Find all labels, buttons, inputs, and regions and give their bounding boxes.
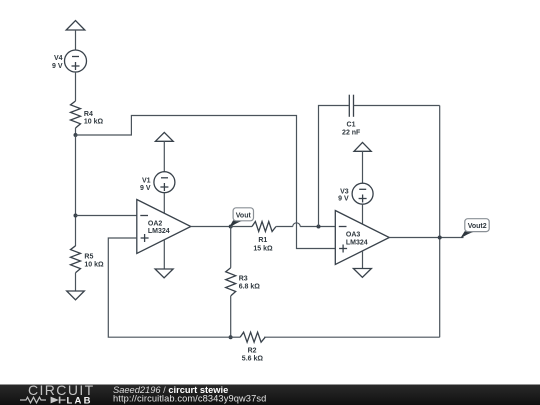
svg-text:http://circuitlab.com/c8343y9q: http://circuitlab.com/c8343y9qw37sd <box>113 394 266 404</box>
resistor R1 <box>231 222 276 253</box>
voltage source V4 <box>52 50 87 72</box>
svg-text:OA3: OA3 <box>346 232 361 239</box>
svg-text:LAB: LAB <box>67 395 93 405</box>
svg-text:15 kΩ: 15 kΩ <box>253 246 273 253</box>
wire left column down <box>75 135 77 246</box>
wire OA3 bottom power <box>362 251 364 269</box>
svg-text:Vout2: Vout2 <box>468 223 487 230</box>
op-amp OA2 LM324 <box>137 200 191 254</box>
resistor R4 <box>71 101 104 128</box>
wire right vertical down <box>439 106 441 338</box>
svg-text:V4: V4 <box>54 55 63 62</box>
wire to OA2 - input <box>76 215 137 217</box>
svg-text:5.6 kΩ: 5.6 kΩ <box>242 356 264 363</box>
wire OA2 + input loop (left bottom route) <box>108 238 230 337</box>
footer bar <box>0 385 540 405</box>
wire OA2 bottom power <box>163 240 165 269</box>
op-amp OA3 LM324 <box>335 211 389 265</box>
wire R3 to bottom junction <box>230 296 232 337</box>
svg-text:R1: R1 <box>258 237 267 244</box>
wire R3 vertical from Vout junction <box>230 227 232 268</box>
node Vout junction <box>229 225 233 229</box>
wire R2 to right vertical <box>264 336 440 338</box>
resistor R5 <box>71 246 105 273</box>
flag Vout <box>230 208 254 227</box>
wire OA3 output <box>389 237 463 239</box>
svg-text:6.8 kΩ: 6.8 kΩ <box>239 283 261 290</box>
wire C1 to right vertical <box>354 105 440 107</box>
svg-text:LM324: LM324 <box>346 240 368 247</box>
wire hop to OA3 - input <box>300 226 335 228</box>
resistor R2 <box>231 332 266 362</box>
down arrow under OA3 <box>353 269 371 278</box>
logo diode <box>51 397 59 404</box>
svg-text:10 kΩ: 10 kΩ <box>84 118 104 125</box>
wire V3 to OA3 top <box>362 204 364 224</box>
svg-text:22 nF: 22 nF <box>342 129 361 136</box>
wire feedback up to C1 <box>319 106 349 227</box>
svg-text:9 V: 9 V <box>140 185 151 192</box>
logo squiggle resistor <box>20 397 46 403</box>
wire junction to OA3 + input (top route with hop) <box>76 116 336 249</box>
svg-text:R2: R2 <box>248 348 257 355</box>
voltage source V1 <box>140 172 175 193</box>
wire R4 to junction <box>75 128 77 135</box>
node junction to OA2 - input <box>74 214 78 218</box>
svg-text:R5: R5 <box>84 254 93 261</box>
node junction below R4 <box>74 133 78 137</box>
node feedback junction <box>317 225 321 229</box>
power flag up-arrow (V3 top) <box>354 142 371 183</box>
ground under R5 <box>67 291 85 300</box>
svg-text:C1: C1 <box>347 121 356 128</box>
svg-text:R3: R3 <box>239 275 248 282</box>
svg-text:Vout: Vout <box>236 212 252 219</box>
wire V1 to OA2 top <box>163 193 165 214</box>
voltage source V3 <box>338 183 373 204</box>
power flag up-arrow (V1 top) <box>155 132 173 171</box>
power flag up-arrow (V4 top) <box>66 21 85 51</box>
wire V4 to R4 <box>75 72 77 101</box>
down arrow under OA2 <box>155 269 173 278</box>
flag Vout2 <box>461 219 489 238</box>
node bottom junction <box>229 335 233 339</box>
wire R5 to ground <box>75 273 77 291</box>
svg-text:V3: V3 <box>340 188 349 195</box>
svg-text:LM324: LM324 <box>148 228 170 235</box>
node output junction <box>438 236 442 240</box>
wire hop over vertical <box>293 223 300 227</box>
svg-text:R4: R4 <box>84 111 93 118</box>
wire OA2 output to junction <box>191 226 231 228</box>
resistor R3 <box>226 268 261 296</box>
svg-text:OA2: OA2 <box>148 221 163 228</box>
svg-text:9 V: 9 V <box>338 196 349 203</box>
capacitor C1 <box>342 95 361 137</box>
svg-text:10 kΩ: 10 kΩ <box>84 262 104 269</box>
svg-text:V1: V1 <box>142 177 151 184</box>
svg-text:9 V: 9 V <box>52 63 63 70</box>
wire R1 to hop <box>276 226 293 228</box>
